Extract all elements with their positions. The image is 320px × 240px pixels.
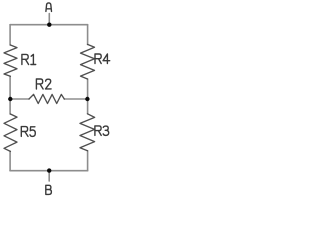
resistor R5 bbox=[4, 114, 17, 151]
wire right upper bbox=[87, 25, 89, 45]
wire right lower bbox=[87, 151, 89, 171]
resistor R4 bbox=[81, 44, 95, 79]
resistor R1 bbox=[4, 45, 17, 76]
label R1 bbox=[22, 54, 36, 64]
junction dot middle left bbox=[8, 97, 12, 101]
wire middle rail right bbox=[64, 98, 87, 100]
resistor R2 bbox=[29, 94, 64, 103]
junction dot middle right bbox=[85, 97, 89, 101]
wire left middle bbox=[9, 76, 11, 114]
label R4 bbox=[95, 54, 110, 64]
junction dot bottom (node B) bbox=[47, 168, 51, 172]
wire left lower bbox=[9, 151, 11, 170]
label R2 bbox=[36, 79, 51, 89]
wire stub node A bbox=[48, 14, 50, 25]
junction dot top (node A) bbox=[47, 23, 51, 27]
wire stub node B bbox=[48, 171, 50, 181]
node B label bbox=[46, 185, 52, 194]
node A label bbox=[46, 3, 52, 12]
label R5 bbox=[21, 127, 35, 137]
label R3 bbox=[95, 126, 109, 135]
wire middle rail left bbox=[10, 98, 29, 100]
resistor R3 bbox=[80, 114, 95, 151]
wire top rail bbox=[10, 24, 88, 26]
wire right middle bbox=[87, 79, 89, 114]
wire bottom rail bbox=[10, 170, 88, 172]
wire left upper bbox=[9, 25, 11, 45]
